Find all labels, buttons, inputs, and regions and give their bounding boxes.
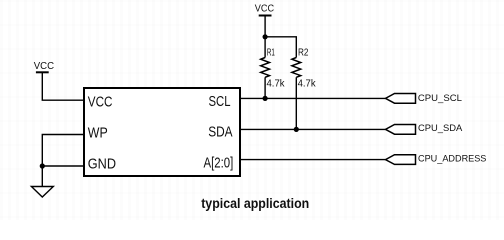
- chip U1 body: [84, 88, 240, 176]
- junction VCC branch: [263, 34, 268, 39]
- power symbol VCC (left): [34, 61, 54, 72]
- svg-text:4.7k: 4.7k: [298, 79, 317, 90]
- wire A[2:0] net: [240, 159, 386, 161]
- wire WP pin to GND net: [42, 135, 84, 167]
- wire VCC branch to R2: [265, 37, 296, 58]
- wire SDA net: [240, 128, 386, 130]
- svg-text:VCC: VCC: [34, 61, 54, 72]
- svg-text:VCC: VCC: [88, 95, 113, 111]
- junction R1 to SCL: [263, 96, 268, 101]
- wire SCL net: [240, 97, 386, 99]
- junction GND net: [40, 163, 45, 168]
- ground: [31, 187, 53, 198]
- svg-text:GND: GND: [88, 157, 116, 173]
- junction R2 to SDA: [294, 127, 299, 132]
- wire VCC to junction: [264, 16, 266, 37]
- wire GND pin to ground: [42, 166, 84, 187]
- wire VCC symbol to U1 VCC pin: [42, 72, 84, 100]
- svg-text:SCL: SCL: [209, 94, 231, 110]
- svg-text:VCC: VCC: [255, 4, 274, 15]
- resistor R2: [292, 58, 301, 130]
- port CPU_ADDRESS: [386, 155, 416, 165]
- port CPU_SCL: [386, 94, 416, 104]
- svg-text:typical application: typical application: [201, 195, 309, 211]
- svg-text:CPU_SCL: CPU_SCL: [418, 93, 462, 104]
- svg-text:A[2:0]: A[2:0]: [204, 155, 234, 171]
- power symbol VCC (top): [255, 4, 274, 16]
- resistor R1: [261, 37, 270, 99]
- svg-text:CPU_ADDRESS: CPU_ADDRESS: [418, 154, 486, 165]
- svg-text:4.7k: 4.7k: [267, 79, 286, 90]
- svg-text:R2: R2: [298, 48, 309, 59]
- port CPU_SDA: [386, 125, 416, 135]
- svg-text:SDA: SDA: [208, 124, 233, 140]
- svg-text:CPU_SDA: CPU_SDA: [418, 123, 463, 134]
- svg-text:R1: R1: [267, 48, 275, 59]
- svg-text:WP: WP: [88, 125, 108, 141]
